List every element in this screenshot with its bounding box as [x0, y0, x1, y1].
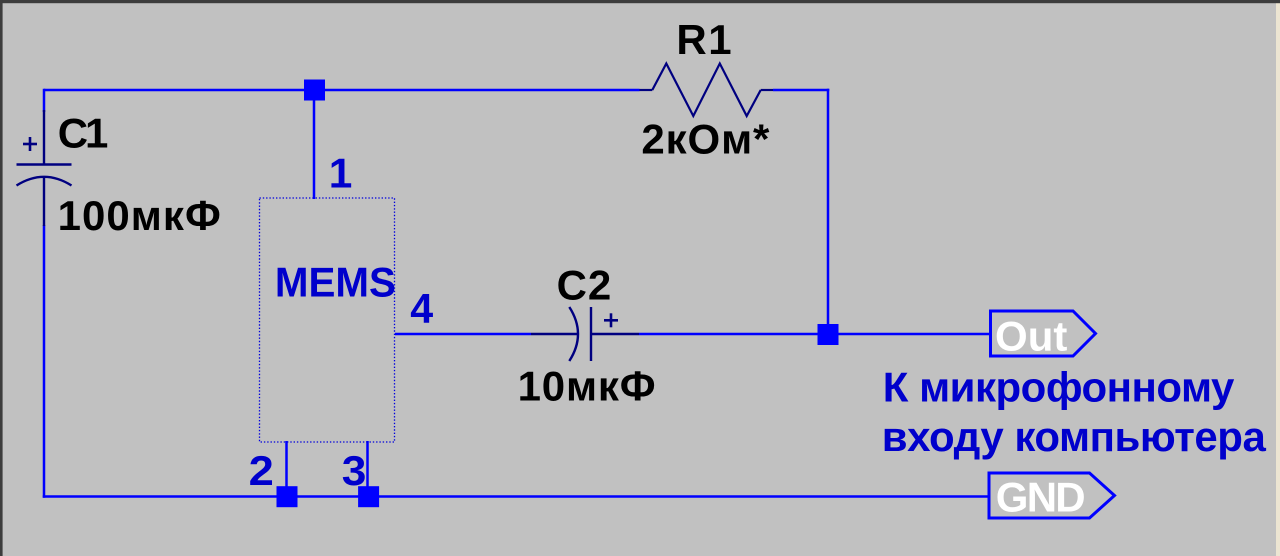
wire pin4 horizontal (MEMS to C2)	[395, 333, 531, 336]
wire left vertical lower (C1 to bottom)	[43, 225, 46, 498]
svg-text:C2: C2	[557, 262, 612, 309]
wire top horizontal	[44, 89, 640, 92]
svg-text:MEMS: MEMS	[275, 259, 396, 306]
junction node (top wire / pin 1)	[304, 80, 325, 101]
svg-text:GND: GND	[996, 474, 1086, 521]
svg-text:2: 2	[249, 447, 274, 494]
resistor R1	[640, 64, 774, 117]
C2 plus sign	[604, 313, 618, 327]
port Out arrow	[991, 311, 1096, 356]
svg-text:4: 4	[410, 285, 434, 332]
junction node (pin 2 / ground wire)	[277, 486, 298, 507]
wire C2 to Out	[639, 333, 990, 336]
wire pin2 vertical	[285, 441, 288, 497]
svg-text:100мкФ: 100мкФ	[58, 192, 221, 239]
capacitor C1	[17, 110, 72, 226]
wire pin3 vertical	[366, 441, 369, 497]
wire bottom horizontal	[43, 495, 990, 498]
svg-text:К микрофонному: К микрофонному	[883, 364, 1235, 411]
wire left vertical upper (to C1)	[43, 89, 46, 112]
svg-text:Out: Out	[995, 312, 1067, 359]
junction node (R1 / output wire)	[818, 324, 839, 345]
svg-text:2кОм*: 2кОм*	[641, 116, 770, 163]
svg-text:10мкФ: 10мкФ	[518, 363, 656, 410]
wire R1 right lead to corner	[773, 89, 829, 92]
junction node (pin 3 / ground wire)	[358, 486, 379, 507]
port GND arrow	[989, 473, 1115, 518]
svg-text:R1: R1	[676, 16, 731, 63]
svg-text:C1: C1	[58, 110, 109, 157]
svg-text:входу компьютера: входу компьютера	[882, 413, 1267, 460]
capacitor C2	[531, 307, 639, 361]
wire R1 corner down to junction	[827, 89, 830, 334]
wire pin1 vertical	[313, 90, 316, 199]
C1 plus sign	[23, 137, 37, 151]
MEMS microphone box U1	[260, 198, 395, 442]
svg-text:1: 1	[329, 150, 353, 197]
